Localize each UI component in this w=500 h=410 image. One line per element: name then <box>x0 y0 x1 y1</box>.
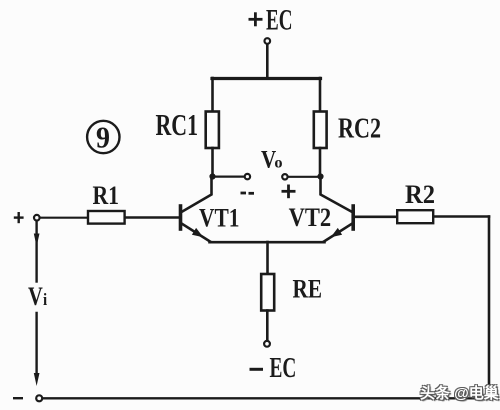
svg-text:R2: R2 <box>405 180 435 209</box>
svg-text:VT2: VT2 <box>289 203 332 232</box>
svg-text:i: i <box>43 290 47 309</box>
svg-text:VT1: VT1 <box>199 203 240 232</box>
svg-text:9: 9 <box>96 119 110 154</box>
svg-text:EC: EC <box>266 3 293 36</box>
svg-text:o: o <box>274 155 282 172</box>
svg-text:RC2: RC2 <box>338 113 381 145</box>
svg-text:RC1: RC1 <box>156 107 199 142</box>
svg-text:R1: R1 <box>93 181 120 210</box>
svg-text:EC: EC <box>270 353 297 384</box>
svg-text:V: V <box>28 282 43 311</box>
svg-text:RE: RE <box>293 275 323 304</box>
